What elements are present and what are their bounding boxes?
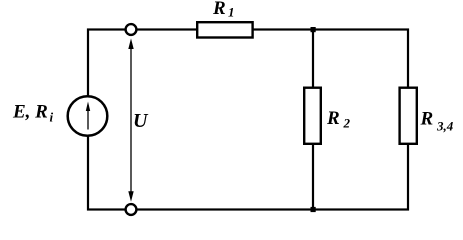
svg-text:i: i [50,110,54,125]
svg-text:R: R [212,0,226,19]
svg-text:1: 1 [228,5,235,20]
svg-text:E, R: E, R [12,102,48,123]
svg-text:3,4: 3,4 [436,119,454,134]
svg-text:2: 2 [343,116,351,131]
svg-text:R: R [326,108,340,129]
svg-text:U: U [133,110,149,132]
svg-text:R: R [420,109,434,130]
